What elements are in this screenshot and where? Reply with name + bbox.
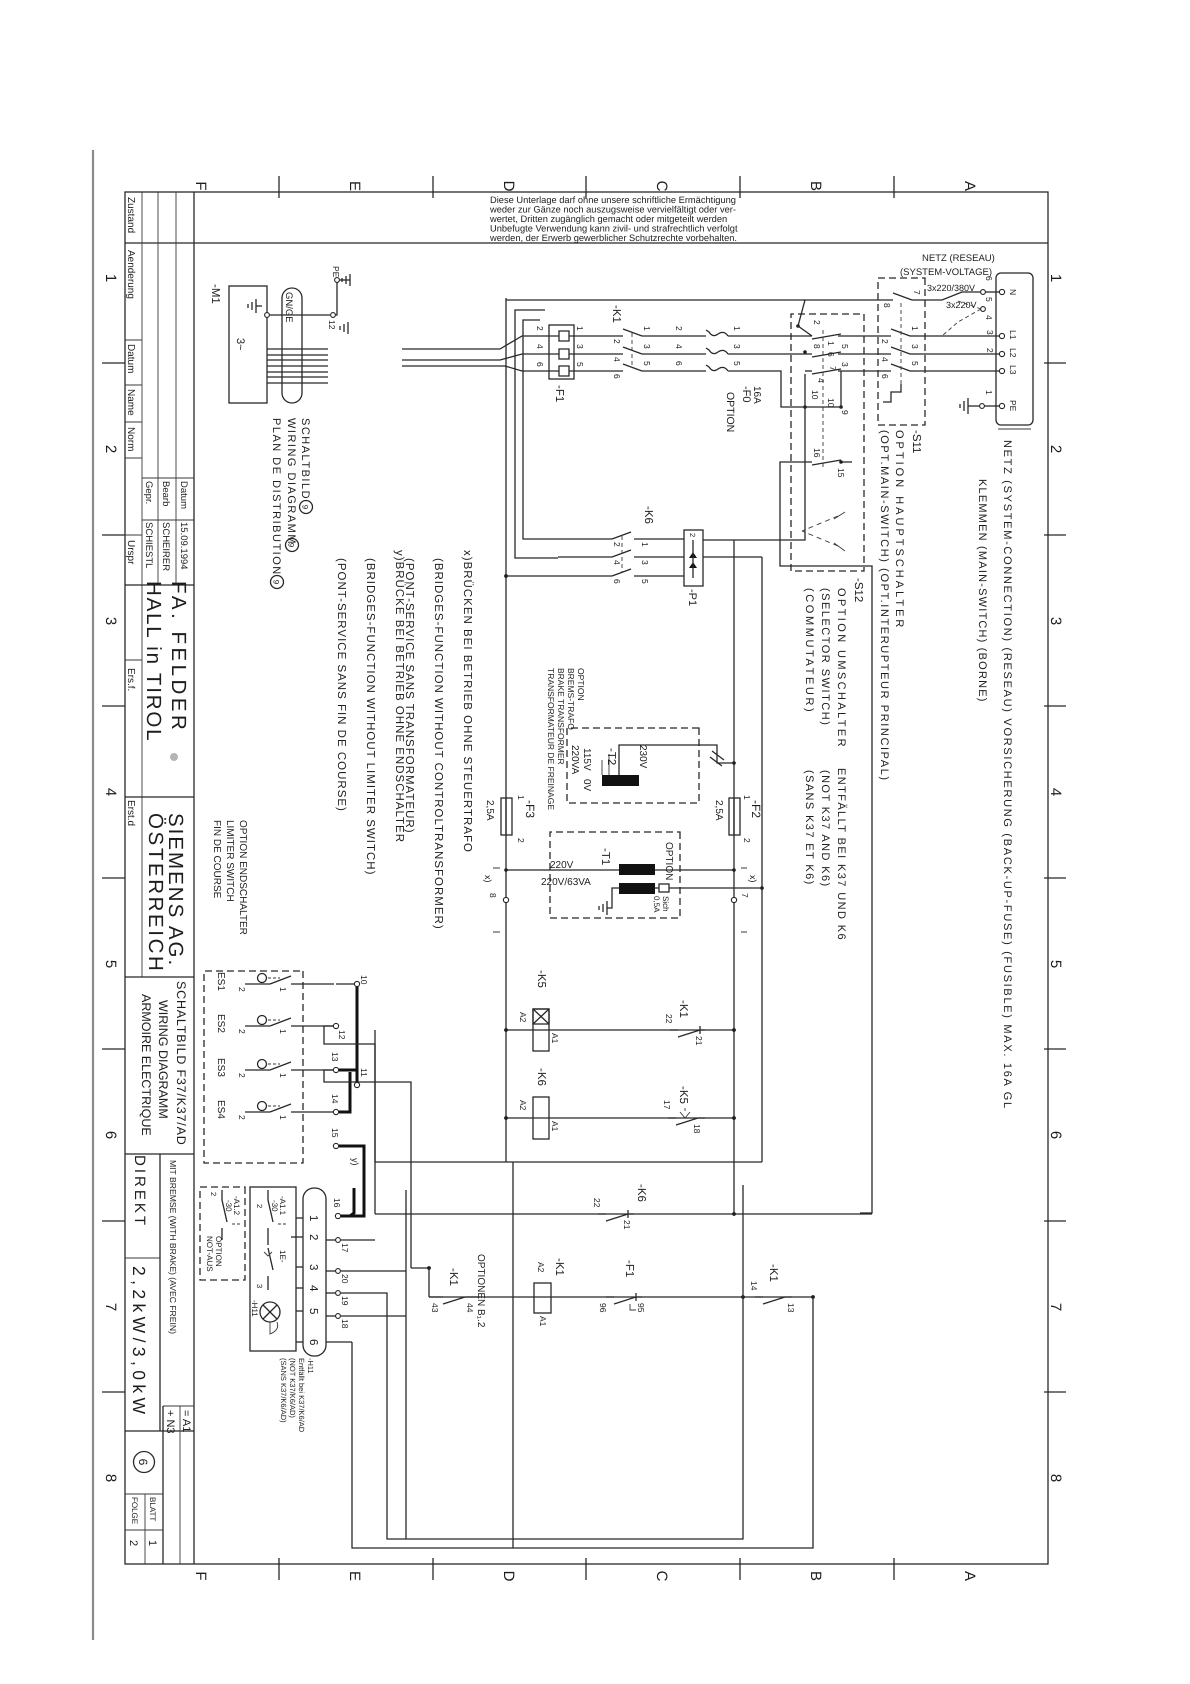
svg-text:KLEMMEN (MAIN-SWITCH) (BORNE): KLEMMEN (MAIN-SWITCH) (BORNE) <box>976 479 988 703</box>
svg-text:(BRIDGES-FUNCTION WITHOUT LI: (BRIDGES-FUNCTION WITHOUT LIMITER SWITCH… <box>364 558 376 875</box>
svg-text:x): x) <box>748 875 758 883</box>
svg-text:15: 15 <box>836 468 846 478</box>
breaker F0 pole 1 <box>674 326 742 336</box>
svg-text:9: 9 <box>840 410 850 415</box>
T2 primary wire with bridge mark <box>619 745 734 775</box>
svg-text:2: 2 <box>237 1115 247 1120</box>
node 13 <box>333 1067 338 1072</box>
K6 NC contact 21/22 <box>598 1210 634 1221</box>
svg-text:-S11: -S11 <box>910 430 922 453</box>
svg-text:2: 2 <box>612 542 622 547</box>
svg-text:5: 5 <box>642 361 652 366</box>
S11 pole L2 contact <box>864 344 920 362</box>
brake transformer T2 box <box>567 728 699 803</box>
svg-text:6: 6 <box>102 1131 119 1139</box>
svg-text:0V: 0V <box>581 779 592 792</box>
node 3x220/380V tap circle <box>981 290 986 295</box>
svg-text:-K6: -K6 <box>642 506 654 524</box>
revision table labels row <box>125 197 136 826</box>
svg-text:-F2: -F2 <box>749 800 763 818</box>
svg-text:2: 2 <box>516 838 526 843</box>
svg-text:3: 3 <box>985 330 995 335</box>
svg-text:2: 2 <box>742 838 752 843</box>
copyright note (rotated) <box>489 195 738 243</box>
fuse F3 <box>501 798 512 835</box>
svg-text:(NOT K37/K6/AD): (NOT K37/K6/AD) <box>288 1358 297 1418</box>
svg-text:= A1: = A1 <box>180 1410 192 1432</box>
svg-text:-30: -30 <box>224 1200 233 1212</box>
svg-text:Unbefugte Verwendung kann zivi: Unbefugte Verwendung kann zivil- und str… <box>490 224 738 234</box>
svg-text:L2: L2 <box>1008 348 1018 358</box>
svg-text:3: 3 <box>102 617 119 625</box>
schaltbild note with sheet refs <box>270 418 311 576</box>
svg-text:-F3: -F3 <box>523 800 537 818</box>
svg-text:8: 8 <box>102 1474 119 1482</box>
svg-text:Urspr: Urspr <box>125 540 136 565</box>
ruler ticks bottom <box>102 363 125 1392</box>
svg-text:14: 14 <box>749 1281 759 1291</box>
svg-text:3: 3 <box>1047 617 1064 625</box>
svg-text:ES2: ES2 <box>215 1014 226 1033</box>
svg-text:-K1: -K1 <box>677 1000 689 1018</box>
rung K6 wire <box>506 1117 734 1119</box>
svg-text:A: A <box>961 181 978 191</box>
selector switch S12 box <box>791 314 864 571</box>
svg-text:18: 18 <box>692 1124 702 1134</box>
svg-text:1: 1 <box>278 987 288 992</box>
K1 NO contact 43/44 <box>429 1297 480 1304</box>
wire L1 down <box>918 335 1000 337</box>
double slash bridge marker <box>710 751 724 766</box>
svg-text:OPTIONEN B₁.2: OPTIONEN B₁.2 <box>475 1254 486 1328</box>
breaker F0 pole 3 <box>674 361 742 371</box>
terminal L1 <box>999 333 1004 338</box>
svg-text:ES4: ES4 <box>215 1100 226 1119</box>
svg-text:FA. FELDER: FA. FELDER <box>167 581 190 733</box>
svg-text:1: 1 <box>1047 274 1064 282</box>
node 17 <box>336 1238 341 1243</box>
T1 secondary winding <box>619 883 655 894</box>
svg-text:4: 4 <box>612 560 622 565</box>
svg-text:1: 1 <box>910 326 920 331</box>
motor ground symbol <box>248 299 262 313</box>
svg-text:PE: PE <box>331 266 341 278</box>
svg-text:wertet, Dritten zugänglich gem: wertet, Dritten zugänglich gemacht oder … <box>489 214 727 224</box>
svg-text:-K1: -K1 <box>447 1268 459 1286</box>
T1 primary feed from rail <box>655 869 734 871</box>
svg-text:21: 21 <box>622 1220 632 1230</box>
rail feeder tap wires from mains <box>515 310 558 558</box>
svg-text:NETZ (SYSTEM-CONNECTION) (RESE: NETZ (SYSTEM-CONNECTION) (RESEAU) VORSIC… <box>1001 440 1013 1110</box>
svg-text:3x220V: 3x220V <box>946 300 977 310</box>
S12 linkage <box>822 330 824 470</box>
title cell dividers <box>125 796 194 798</box>
svg-text:1E-: 1E- <box>278 1250 287 1263</box>
svg-text:3: 3 <box>910 344 920 349</box>
svg-text:12: 12 <box>337 1030 347 1040</box>
limit switch ES2 <box>215 1014 334 1034</box>
wire sensing continuation <box>375 1161 762 1163</box>
svg-text:5: 5 <box>307 1308 319 1314</box>
svg-text:96: 96 <box>598 1303 608 1313</box>
control transformer T1 box <box>550 832 680 918</box>
svg-text:8: 8 <box>1047 1474 1064 1482</box>
svg-text:A: A <box>961 1571 978 1581</box>
svg-text:(SELECTOR SWITCH): (SELECTOR SWITCH) <box>819 588 831 726</box>
svg-text:6: 6 <box>307 1339 319 1345</box>
wires F1 to motor bundle <box>402 336 549 349</box>
svg-text:-H11: -H11 <box>306 1358 315 1374</box>
svg-text:F: F <box>192 1571 209 1580</box>
plant / location designation <box>164 1410 192 1434</box>
wire P1 to sensing line <box>703 556 762 558</box>
svg-text:-K1: -K1 <box>553 1258 565 1276</box>
wire PE stub <box>984 405 1000 407</box>
node 10 <box>354 981 359 986</box>
sensing wire to ES circuit <box>761 557 763 1162</box>
F1 NC contact 95/96 <box>606 1293 642 1304</box>
limit switch box <box>204 971 303 1163</box>
contact A1.1 <box>268 1190 273 1245</box>
option limit switch note <box>211 820 248 935</box>
svg-text:5: 5 <box>640 579 650 584</box>
svg-text:6: 6 <box>880 374 890 379</box>
svg-text:(SANS K37/K6/AD): (SANS K37/K6/AD) <box>279 1358 288 1423</box>
svg-text:OPTION: OPTION <box>724 392 736 432</box>
terminal N <box>999 289 1004 294</box>
revision table row lines <box>175 192 177 585</box>
svg-text:4: 4 <box>880 357 890 362</box>
limit switch ES4 <box>215 1100 334 1120</box>
svg-text:D: D <box>500 1571 517 1582</box>
svg-text:Entfällt bei K37/K6/AD: Entfällt bei K37/K6/AD <box>297 1358 306 1433</box>
wire from K1 13 to door loop <box>352 1297 813 1548</box>
svg-text:4: 4 <box>1047 788 1064 796</box>
svg-text:95: 95 <box>636 1303 646 1313</box>
stamp dot <box>170 753 178 761</box>
svg-text:9: 9 <box>301 505 310 510</box>
dashed link tap 5 to L1 wire <box>942 309 981 336</box>
zone letters right <box>192 1571 978 1582</box>
svg-text:(NOT K37 AND K6): (NOT K37 AND K6) <box>819 770 831 888</box>
svg-text:MIT BREMSE (WITH BRAKE) (AVEC: MIT BREMSE (WITH BRAKE) (AVEC FREIN) <box>168 1160 178 1334</box>
node 3x220V tap circle <box>981 307 986 312</box>
svg-text:Zustand: Zustand <box>125 197 136 233</box>
svg-text:B: B <box>807 1571 824 1581</box>
svg-text:A1: A1 <box>538 1316 548 1327</box>
svg-text:-F1: -F1 <box>623 1260 635 1277</box>
title block top edge <box>193 192 195 1564</box>
svg-text:4: 4 <box>612 357 622 362</box>
svg-text:B: B <box>807 181 824 191</box>
svg-text:1: 1 <box>642 326 652 331</box>
node 11 <box>354 1082 359 1087</box>
svg-text:Name: Name <box>125 389 136 416</box>
bold link node16 <box>341 1188 354 1216</box>
S11 pole N contact <box>860 290 925 308</box>
svg-text:Datum: Datum <box>125 344 136 373</box>
svg-text:Bearb: Bearb <box>160 481 171 506</box>
svg-text:13: 13 <box>786 1303 796 1313</box>
svg-text:3: 3 <box>642 344 652 349</box>
svg-text:2: 2 <box>237 1029 247 1034</box>
svg-text:A1: A1 <box>550 1121 560 1132</box>
svg-text:21: 21 <box>694 1036 704 1046</box>
svg-text:2: 2 <box>674 326 684 331</box>
ground at PE node 12 <box>340 322 348 334</box>
relay coil K6 <box>533 1097 549 1139</box>
svg-text:4: 4 <box>102 788 119 796</box>
node 15 <box>333 1143 338 1148</box>
emergency stop option box <box>200 1187 245 1280</box>
svg-text:16: 16 <box>332 1198 342 1208</box>
svg-text:1: 1 <box>146 1540 158 1546</box>
wire from junction 447 to loop <box>387 1185 743 1539</box>
svg-text:7: 7 <box>740 893 750 898</box>
sheet index circle 6 <box>134 1452 155 1473</box>
svg-text:(OPT.MAIN-SWITCH) (OPT.INTERUP: (OPT.MAIN-SWITCH) (OPT.INTERUPTEUR PRINC… <box>878 430 890 782</box>
svg-text:Datum: Datum <box>178 481 189 509</box>
rung K6 aux 21/22 wire <box>375 1213 872 1215</box>
motor cable sheath <box>282 288 302 403</box>
S12 aux pole 15/16 <box>791 448 852 478</box>
main switch S11 <box>878 278 925 425</box>
T1 secondary fuse Sich 0,5A <box>655 887 659 889</box>
svg-text:WIRING DIAGRAMM: WIRING DIAGRAMM <box>285 418 297 545</box>
svg-text:BLATT: BLATT <box>148 1497 157 1521</box>
svg-text:17: 17 <box>662 1100 672 1110</box>
T1 primary winding <box>619 864 655 875</box>
svg-text:16: 16 <box>812 448 822 458</box>
svg-text:-H11: -H11 <box>250 1300 259 1317</box>
svg-text:SCHALTBILD: SCHALTBILD <box>299 418 311 500</box>
wire ES2 to sensing line <box>324 1026 375 1214</box>
note y) bridge without limit switch <box>335 550 406 875</box>
limit switch ES1 <box>215 972 334 992</box>
svg-text:E: E <box>346 181 363 191</box>
svg-text:-K6: -K6 <box>635 1184 647 1202</box>
svg-text:17: 17 <box>340 1243 350 1253</box>
svg-text:BRAKE TRANSFORMER: BRAKE TRANSFORMER <box>556 668 566 765</box>
bridge bracket marks <box>493 868 500 932</box>
customer name <box>142 581 190 742</box>
limit switch ES3 <box>215 1058 334 1078</box>
node 16 <box>335 1213 340 1218</box>
company name <box>144 813 187 973</box>
svg-text:10: 10 <box>810 390 820 400</box>
svg-text:L1: L1 <box>1008 330 1018 340</box>
svg-text:9: 9 <box>272 580 281 585</box>
node 12 <box>333 1023 338 1028</box>
sheet ref circles 9 <box>300 501 313 514</box>
rung K1 wire <box>429 1296 813 1298</box>
svg-text:A2: A2 <box>536 1262 546 1273</box>
svg-text:-T1: -T1 <box>599 848 611 865</box>
svg-text:ARMOIRE ELECTRIQUE: ARMOIRE ELECTRIQUE <box>139 994 153 1136</box>
svg-text:8: 8 <box>812 344 822 349</box>
svg-text:1: 1 <box>732 326 742 331</box>
svg-text:OPTION: OPTION <box>214 1236 223 1267</box>
svg-text:15: 15 <box>330 1128 340 1138</box>
svg-text:(SYSTEM-VOLTAGE): (SYSTEM-VOLTAGE) <box>900 267 992 278</box>
auxiliary box A1.1 / H11 <box>250 1187 296 1351</box>
svg-text:6: 6 <box>984 276 994 281</box>
bridge terminal 8 <box>503 897 508 902</box>
S12 pole 2 <box>791 344 864 371</box>
pill terminal stubs <box>291 1218 406 1342</box>
node 14 <box>333 1109 338 1114</box>
svg-text:D: D <box>500 181 517 192</box>
wire S12 to F0 L2 <box>732 353 791 355</box>
svg-text:2: 2 <box>812 320 822 325</box>
svg-text:+ N3: + N3 <box>164 1410 176 1434</box>
svg-text:1: 1 <box>307 1215 319 1221</box>
svg-text:Sich: Sich <box>661 896 670 912</box>
ruler ticks top <box>1044 363 1066 1392</box>
svg-text:SIEMENS AG.: SIEMENS AG. <box>164 813 187 967</box>
T2 secondary stubs <box>602 754 609 775</box>
svg-text:Gepr.: Gepr. <box>143 481 154 504</box>
jumper 13-14 <box>339 1069 357 1072</box>
svg-text:LIMITER SWITCH: LIMITER SWITCH <box>224 820 235 902</box>
svg-text:3: 3 <box>255 1284 264 1288</box>
svg-text:-K1: -K1 <box>610 305 622 323</box>
svg-text:2: 2 <box>880 339 890 344</box>
svg-text:PE: PE <box>1008 400 1018 412</box>
svg-text:2,5A: 2,5A <box>713 800 724 821</box>
svg-text:-K5: -K5 <box>677 1086 689 1104</box>
phase monitor P1 <box>684 530 703 586</box>
svg-text:3: 3 <box>640 560 650 565</box>
svg-text:5: 5 <box>840 344 850 349</box>
svg-text:1: 1 <box>640 542 650 547</box>
svg-text:Ers.f.: Ers.f. <box>125 668 136 691</box>
contactor K1 main contacts <box>574 326 685 344</box>
svg-text:5: 5 <box>732 361 742 366</box>
zone numbers bottom <box>102 274 119 1482</box>
svg-text:-A1.2: -A1.2 <box>232 1196 241 1216</box>
svg-text:115V: 115V <box>581 748 592 771</box>
svg-text:43: 43 <box>430 1303 440 1313</box>
contact A1.1 aux <box>268 1248 273 1290</box>
svg-text:7: 7 <box>102 1303 119 1311</box>
note x) bridges without control transformer <box>403 550 474 930</box>
wire S12 to F0 L3 <box>732 371 805 407</box>
svg-text:L3: L3 <box>1008 365 1018 375</box>
svg-text:ES3: ES3 <box>215 1058 226 1077</box>
svg-text:-K1: -K1 <box>767 1264 779 1282</box>
svg-text:FIN DE COURSE: FIN DE COURSE <box>211 820 222 899</box>
svg-text:44: 44 <box>465 1303 475 1313</box>
S11 pole L3 contact <box>864 361 920 379</box>
svg-text:13: 13 <box>330 1052 340 1062</box>
K6 linkage <box>621 536 623 573</box>
wire y=779 link to K1 rung <box>324 1070 411 1268</box>
svg-text:16A: 16A <box>751 386 762 404</box>
breaker F0 pole 2 <box>674 344 742 354</box>
jumper wire 10-11 <box>356 987 359 1085</box>
svg-text:-K5: -K5 <box>535 970 547 988</box>
svg-text:22: 22 <box>664 1014 674 1024</box>
svg-text:TRANSFORMATEUR DE FREINAGE: TRANSFORMATEUR DE FREINAGE <box>546 668 556 810</box>
svg-text:WIRING DIAGRAMM: WIRING DIAGRAMM <box>156 1000 170 1119</box>
svg-text:4: 4 <box>674 344 684 349</box>
svg-text:A2: A2 <box>518 1012 528 1023</box>
node 19 <box>336 1291 341 1296</box>
svg-text:x): x) <box>483 875 493 883</box>
svg-text:(COMMUTATEUR): (COMMUTATEUR) <box>803 588 815 714</box>
drawing title cell <box>139 981 188 1146</box>
svg-text:-T2: -T2 <box>605 748 617 765</box>
K1 NO contact 13/14 <box>755 1297 792 1304</box>
terminal L2 <box>999 351 1004 356</box>
sheet number cells <box>130 1497 157 1524</box>
ruler ticks right <box>279 1558 894 1580</box>
K1 linkage <box>631 333 633 368</box>
svg-text:1: 1 <box>984 390 994 395</box>
svg-text:1: 1 <box>278 1073 288 1078</box>
svg-text:Erst.d: Erst.d <box>125 800 136 826</box>
svg-text:FOLGE: FOLGE <box>130 1497 139 1524</box>
svg-text:-F0: -F0 <box>740 386 752 403</box>
wire rung K1 bottom jog <box>411 1268 429 1297</box>
svg-text:2: 2 <box>127 1540 139 1546</box>
svg-text:-A1.1: -A1.1 <box>278 1196 287 1216</box>
svg-text:-M1: -M1 <box>209 284 221 304</box>
svg-text:3: 3 <box>732 344 742 349</box>
svg-text:2: 2 <box>237 1073 247 1078</box>
wire loop ends <box>351 1342 353 1352</box>
signal lamp H11 <box>260 1302 280 1322</box>
svg-text:5: 5 <box>1047 960 1064 968</box>
svg-text:OPTION: OPTION <box>576 668 586 701</box>
svg-text:2: 2 <box>688 533 697 537</box>
svg-text:2: 2 <box>985 348 995 353</box>
svg-text:weder zur Gänze noch auszugswe: weder zur Gänze noch auszugsweise vervie… <box>489 205 736 215</box>
terminal block X1 <box>996 273 1033 425</box>
svg-text:F: F <box>192 181 209 190</box>
svg-text:1: 1 <box>278 1029 288 1034</box>
svg-text:(SANS K37 ET K6): (SANS K37 ET K6) <box>803 770 815 886</box>
svg-text:5: 5 <box>102 960 119 968</box>
bridge terminal 7 <box>731 897 736 902</box>
svg-text:6: 6 <box>612 579 622 584</box>
svg-text:6: 6 <box>535 362 545 367</box>
svg-text:-30: -30 <box>270 1200 279 1212</box>
drawing frame border <box>125 192 1048 1564</box>
svg-text:(PONT-SERVICE SANS FIN DE: (PONT-SERVICE SANS FIN DE COURSE) <box>335 558 347 812</box>
svg-text:PLAN DE DISTRIBUTION: PLAN DE DISTRIBUTION <box>270 418 282 576</box>
svg-text:10: 10 <box>359 975 369 985</box>
ground at PE terminal <box>960 398 968 414</box>
S11 operator linkage <box>900 303 902 384</box>
svg-text:18: 18 <box>340 1319 350 1329</box>
wire pill return <box>405 1190 407 1539</box>
svg-text:3: 3 <box>575 344 585 349</box>
S11 pole L1 contact <box>864 326 920 344</box>
option brake trafo note <box>546 668 586 810</box>
relay coil K5 with latching <box>533 1009 549 1051</box>
svg-text:6: 6 <box>826 352 836 357</box>
contactor K6 brake contacts <box>558 532 655 547</box>
approval cells <box>143 481 189 571</box>
svg-text:x)BRÜCKEN BEI BETRIEB OHNE: x)BRÜCKEN BEI BETRIEB OHNE STEUERTRAFO <box>461 550 474 853</box>
svg-text:6: 6 <box>674 361 684 366</box>
svg-text:1: 1 <box>102 274 119 282</box>
svg-text:2: 2 <box>1047 445 1064 453</box>
svg-text:9: 9 <box>287 543 296 548</box>
svg-text:2: 2 <box>237 987 247 992</box>
